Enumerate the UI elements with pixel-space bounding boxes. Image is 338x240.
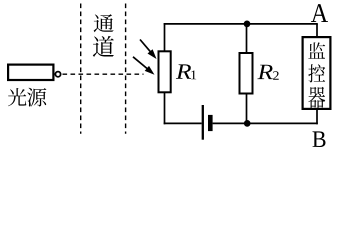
resistor R1 (photoresistor) — [159, 51, 171, 92]
node junction bottom — [244, 120, 251, 127]
wire: bottom rail right — [213, 122, 318, 124]
light arrow 2 — [133, 57, 155, 75]
wire: top rail — [164, 23, 318, 25]
wire: monitor bottom lead — [316, 109, 318, 124]
label 监控器 — [308, 42, 325, 108]
wire: R1 bottom lead — [164, 92, 166, 124]
resistor R2 — [240, 53, 253, 94]
node junction top — [244, 21, 251, 28]
wire: R2 bottom lead — [246, 94, 248, 124]
node B label — [312, 131, 325, 147]
light source box — [8, 65, 53, 80]
battery short plate — [208, 115, 213, 131]
wire: bottom rail left — [164, 122, 202, 124]
wire: R1 top lead — [164, 23, 166, 51]
label 光源 — [8, 88, 46, 107]
monitor box — [303, 37, 331, 109]
dashed light beam line — [63, 73, 144, 75]
light source lens circle — [55, 72, 60, 77]
label R1 — [176, 64, 196, 79]
battery long plate — [202, 105, 204, 140]
wire: monitor top lead — [316, 24, 318, 37]
label R2 — [257, 65, 278, 80]
label 通道 — [93, 14, 114, 57]
channel dashed line right — [125, 4, 127, 134]
node A label — [311, 4, 328, 22]
light arrow 1 — [140, 40, 157, 60]
wire: R2 top lead — [246, 24, 248, 53]
channel dashed line left — [80, 4, 82, 134]
